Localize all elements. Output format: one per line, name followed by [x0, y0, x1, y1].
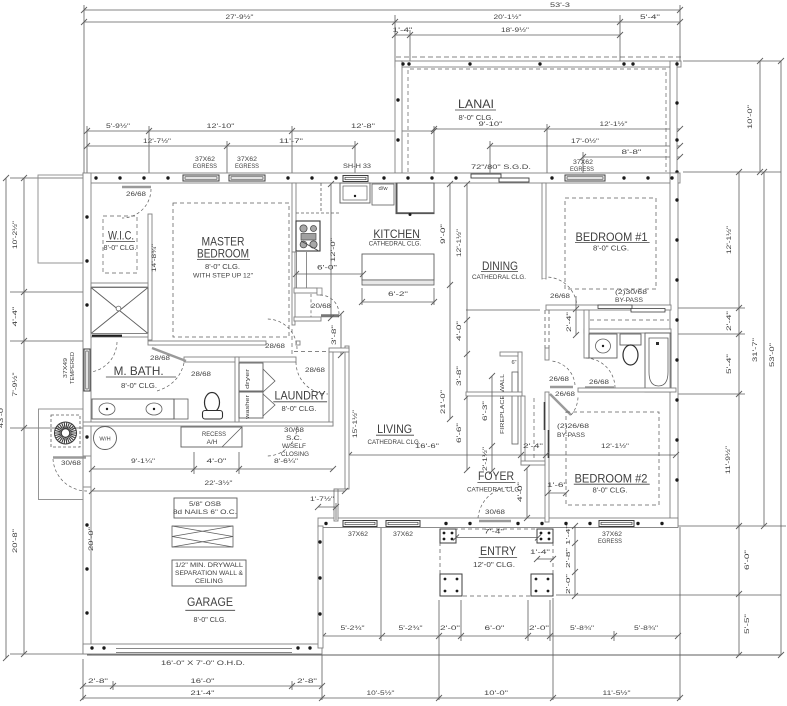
note box drywall separation: [172, 560, 246, 586]
svg-text:S.C.: S.C.: [286, 435, 302, 442]
exterior pad outline bottom-left: [39, 409, 84, 500]
svg-text:CATHEDRAL CLG.: CATHEDRAL CLG.: [369, 241, 422, 248]
svg-text:26/68: 26/68: [549, 376, 570, 383]
svg-text:16'-0" X 7'-0" O.H.D.: 16'-0" X 7'-0" O.H.D.: [161, 660, 245, 667]
svg-text:9'-10": 9'-10": [479, 121, 504, 128]
svg-text:22'-3½": 22'-3½": [205, 479, 234, 487]
lanai posts (dots): [401, 62, 404, 65]
svg-text:FIREPLACE WALL: FIREPLACE WALL: [500, 373, 506, 434]
wall anchor dots left wall: [85, 215, 88, 218]
washer dryer hoses: [263, 369, 275, 416]
svg-text:8'-0" CLG.: 8'-0" CLG.: [593, 246, 629, 253]
svg-text:12'-7½": 12'-7½": [143, 137, 172, 145]
svg-text:10'-0": 10'-0": [747, 104, 754, 129]
svg-text:37X62: 37X62: [237, 156, 258, 163]
kitchen ceiling break dashed: [294, 351, 348, 353]
svg-text:W/SELF: W/SELF: [282, 443, 306, 450]
mbath sinks: [99, 403, 115, 415]
lanai dim row: 9'-10 / 12'-1half: [434, 128, 680, 130]
extension lines right: [683, 60, 781, 62]
svg-text:21'-0": 21'-0": [440, 390, 447, 414]
svg-text:12'-0" CLG.: 12'-0" CLG.: [473, 562, 515, 569]
dim 2'-4 closet: [575, 296, 577, 335]
svg-text:17'-0½": 17'-0½": [571, 137, 600, 145]
AC condenser dashed square with fan: [51, 415, 80, 447]
svg-text:dryer: dryer: [245, 369, 251, 389]
svg-text:8'-8": 8'-8": [622, 149, 643, 156]
svg-text:8'-6¼": 8'-6¼": [274, 458, 299, 465]
svg-text:20'-0": 20'-0": [89, 527, 95, 551]
lanai top wall: [395, 61, 681, 67]
kitchen stove: [296, 221, 320, 251]
dim line top row 3: 1'-4 / 18'-9half: [395, 34, 620, 36]
dim 1'-7half jog: [318, 506, 336, 508]
svg-text:37X62: 37X62: [195, 156, 216, 163]
water heater circle W/H: [94, 427, 117, 450]
svg-text:7'-9½": 7'-9½": [11, 372, 19, 397]
svg-text:11'-9½": 11'-9½": [724, 445, 732, 474]
svg-text:1'-4": 1'-4": [566, 525, 572, 545]
attic access X box: [172, 526, 233, 547]
svg-text:37X62: 37X62: [393, 531, 414, 538]
hall door leaf and arc 26/68 (to hall): [550, 386, 573, 389]
counter run below stove: [296, 252, 298, 288]
svg-text:10'-0": 10'-0": [484, 690, 509, 697]
svg-text:8'-0" CLG.: 8'-0" CLG.: [121, 383, 157, 390]
dim line left: 10'-2half / 4'-4 / 7'-9half / 20'-8: [23, 178, 25, 654]
extension lines bottom: [82, 659, 84, 700]
bedroom1 door arc 26/68: [543, 279, 546, 308]
svg-text:5/8" OSB: 5/8" OSB: [189, 501, 221, 508]
dim 12'-1half bedroom2 / 2'-4 / 16'-6 living row: [349, 454, 676, 456]
bath2 tub: [645, 333, 671, 392]
master south wall: [148, 341, 266, 345]
dim 10'-0 lanai right offset: [759, 61, 761, 172]
dim line top row 2: 27'-9half / 20'-1half / 5'-4: [84, 21, 680, 23]
living west wall: [345, 346, 349, 489]
bath2 door leaf and arc 26/68: [585, 386, 614, 389]
dim 7'-4 porch: [456, 537, 538, 539]
fireplace column north wall: [500, 352, 522, 356]
window SH-H 33 (kitchen sink): [343, 176, 368, 182]
extension lines top: [83, 5, 85, 173]
svg-text:5'-8¾": 5'-8¾": [570, 625, 595, 632]
dryer box: [239, 363, 263, 391]
closet bottom wall / bath north wall: [584, 329, 671, 333]
window 37X49 tempered (left wall): [84, 349, 90, 391]
svg-text:8'-0" CLG.: 8'-0" CLG.: [593, 488, 628, 495]
svg-text:washer: washer: [245, 395, 251, 420]
bedroom2 dashed ceiling rect: [566, 412, 659, 505]
porch post SE: [531, 574, 553, 596]
svg-text:9'-1¼": 9'-1¼": [131, 458, 156, 465]
svg-text:28/68: 28/68: [191, 371, 212, 378]
hall south wall (garage top wall): [83, 422, 333, 426]
svg-text:EGRESS: EGRESS: [598, 538, 622, 545]
dim line overall 53'-3" (top row 1): [84, 9, 680, 11]
svg-text:15'-1½": 15'-1½": [352, 410, 359, 438]
svg-text:2'-8": 2'-8": [566, 548, 572, 568]
svg-text:12'-0": 12'-0": [330, 238, 337, 262]
svg-text:BY-PASS: BY-PASS: [557, 432, 585, 439]
svg-text:CEILING: CEILING: [195, 578, 223, 585]
svg-text:12'-1½": 12'-1½": [601, 442, 630, 450]
svg-text:2'-8": 2'-8": [297, 678, 318, 685]
dim row above main wall: 5'-9half / 12'-10 / 12'-8: [87, 130, 434, 132]
svg-text:20'-1½": 20'-1½": [494, 13, 523, 21]
dim 1'-4 porch: [537, 558, 553, 560]
svg-text:26/68: 26/68: [550, 293, 571, 300]
lanai dim 17'-0half: [490, 145, 680, 147]
svg-text:4'-4": 4'-4": [12, 306, 19, 327]
svg-text:SH-H 33: SH-H 33: [343, 163, 372, 170]
lanai dim 8'-8: [583, 156, 680, 158]
svg-text:28/68: 28/68: [305, 367, 326, 374]
master bedroom dashed ceiling rect: [173, 203, 289, 337]
wall anchor dots right wall: [675, 198, 678, 201]
lanai right wall / house right wall upper: [670, 61, 677, 173]
svg-text:27'-9½": 27'-9½": [226, 13, 255, 21]
dim line right: 12'-1half / 2'-4 / 5'-4 / 11'-9half / 6'-0 / 5'-5: [738, 172, 740, 655]
south wall bedroom2/foyer/living: [318, 518, 678, 528]
svg-text:LIVING: LIVING: [377, 422, 412, 436]
dim 6'-2 island: [362, 301, 434, 303]
long horizontal line y=655: [87, 654, 781, 656]
svg-text:12'-1½": 12'-1½": [456, 229, 463, 257]
wic door 26/68 leaf and arc: [122, 186, 151, 189]
svg-text:5'-5": 5'-5": [744, 613, 751, 634]
pantry south wall: [294, 317, 321, 321]
svg-text:20/68: 20/68: [311, 303, 332, 310]
right exterior wall (main): [670, 173, 678, 526]
bath2 vanity: [589, 334, 617, 358]
svg-text:5'-8¾": 5'-8¾": [634, 625, 659, 632]
svg-text:10'-2½": 10'-2½": [11, 220, 19, 249]
svg-text:EGRESS: EGRESS: [235, 163, 259, 170]
svg-text:37X62: 37X62: [348, 531, 369, 538]
shower curb (dark bar): [92, 335, 122, 337]
closet west wall: [521, 396, 525, 465]
laundry east wall: [329, 352, 333, 426]
svg-text:LANAI: LANAI: [458, 97, 494, 111]
svg-text:37X62: 37X62: [602, 531, 623, 538]
svg-text:18'-9½": 18'-9½": [501, 26, 530, 34]
dim row 2 above wall: 12'-7half / 11'-7: [87, 145, 355, 147]
wic dashed shelf outline: [103, 216, 137, 273]
bath2 south wall / bedroom2 north wall: [578, 388, 676, 392]
svg-text:BEDROOM #1: BEDROOM #1: [576, 230, 648, 244]
svg-text:1'-7½": 1'-7½": [310, 496, 334, 503]
lanai left wall: [395, 61, 402, 173]
window 37X62 living 1: [343, 521, 377, 527]
svg-text:CATHEDRAL CLG.: CATHEDRAL CLG.: [472, 274, 526, 281]
garage door opening: [116, 645, 292, 653]
svg-text:A/H: A/H: [207, 439, 218, 446]
svg-text:(2)30/68: (2)30/68: [615, 289, 648, 296]
dining east wall: [542, 183, 546, 279]
svg-text:11'-5½": 11'-5½": [603, 689, 632, 697]
window 37X62 egress (master): [229, 175, 265, 181]
svg-text:BEDROOM #2: BEDROOM #2: [575, 472, 648, 486]
shower box with X: [91, 288, 148, 334]
left wall exterior door 30/68 opening: [84, 456, 91, 487]
laundry north wall: [184, 357, 296, 362]
svg-text:CATHEDRAL CLG.: CATHEDRAL CLG.: [467, 487, 521, 494]
washer box: [239, 392, 263, 418]
svg-text:14'-8¾": 14'-8¾": [152, 244, 158, 272]
svg-text:2'-0": 2'-0": [529, 625, 550, 632]
dim row garage: 2'-8 / 16'-0 / 2'-8: [83, 685, 322, 687]
svg-text:2'-8": 2'-8": [88, 678, 109, 685]
svg-text:DINING: DINING: [482, 259, 518, 273]
closet dashed rod line: [590, 319, 669, 321]
door arc 30/68 left exterior: [53, 459, 87, 491]
svg-text:CATHEDRAL CLG.: CATHEDRAL CLG.: [368, 439, 421, 446]
svg-text:9'-0": 9'-0": [440, 224, 447, 244]
svg-text:37X62: 37X62: [573, 159, 594, 166]
svg-text:8'-0" CLG.: 8'-0" CLG.: [205, 264, 240, 271]
svg-text:W.I.C.: W.I.C.: [108, 229, 134, 243]
refrigerator: [396, 183, 434, 213]
wall below shower: [91, 334, 148, 338]
svg-text:M. BATH.: M. BATH.: [114, 364, 164, 378]
living west wall lower jog: [334, 489, 338, 521]
svg-text:5'-4": 5'-4": [726, 353, 733, 374]
svg-text:11'-7": 11'-7": [279, 138, 304, 145]
pantry door 20/68 leaf and arc: [321, 314, 339, 317]
kitchen sink: [340, 183, 370, 203]
closet south wall: [521, 461, 545, 465]
dim row porch: 5'-2.75 x2 / 2'-0 / 6'-0 / 2'-0 / 5'-8.75 x2: [323, 635, 678, 637]
svg-text:6'-0": 6'-0": [744, 549, 751, 570]
hall/bath west wall: [584, 310, 589, 358]
front door 30/68 opening: [478, 519, 512, 527]
svg-text:21'-4": 21'-4": [191, 690, 216, 697]
svg-text:12'-8": 12'-8": [351, 123, 376, 130]
garage self-closing door arc: [267, 426, 297, 456]
svg-text:KITCHEN: KITCHEN: [373, 227, 420, 241]
svg-text:EGRESS: EGRESS: [193, 163, 217, 170]
svg-text:EGRESS: EGRESS: [570, 166, 594, 173]
bedroom2 door leaf diagonal and arc: [549, 389, 577, 392]
svg-text:8'-0" CLG.: 8'-0" CLG.: [104, 245, 137, 252]
svg-text:2'-4": 2'-4": [523, 443, 544, 450]
master east wall (kitchen side): [292, 183, 296, 252]
extension lines left: [10, 177, 83, 179]
dim 3-8 pantry opening: [340, 314, 342, 355]
porch post NE: [537, 529, 553, 543]
svg-text:1/2" MIN. DRYWALL: 1/2" MIN. DRYWALL: [175, 562, 244, 569]
svg-text:28/68: 28/68: [150, 355, 171, 362]
svg-text:26/68: 26/68: [555, 391, 576, 398]
svg-text:2'-0": 2'-0": [566, 574, 572, 594]
bedroom1 dashed ceiling rect: [565, 198, 656, 289]
mbath vestibule door leaf diagonal: [152, 348, 186, 361]
door 30/68 leaf (left exterior): [53, 456, 86, 459]
wic/shower top wall: [91, 283, 148, 287]
svg-text:WITH STEP UP 12": WITH STEP UP 12": [193, 273, 254, 280]
svg-text:2'-0": 2'-0": [440, 625, 461, 632]
garage south wall: [83, 644, 322, 654]
entry porch dashed outline: [440, 529, 553, 596]
dim line 31'-7 (right): [763, 172, 765, 526]
svg-text:43'-0: 43'-0: [0, 408, 5, 428]
svg-text:(2)26/68: (2)26/68: [557, 423, 590, 430]
svg-text:6'-6": 6'-6": [456, 423, 463, 443]
dim 4'-0 foyer rotated: [526, 468, 528, 518]
svg-text:4'-0": 4'-0": [207, 458, 228, 465]
dining/living break line: [466, 309, 540, 311]
vestibule arc near left wall: [91, 342, 117, 372]
svg-text:6'-0": 6'-0": [317, 265, 337, 272]
svg-text:8'-0" CLG.: 8'-0" CLG.: [282, 406, 317, 413]
left exterior wall: [83, 173, 91, 654]
svg-text:LAUNDRY: LAUNDRY: [275, 389, 326, 403]
svg-text:8'-0" CLG.: 8'-0" CLG.: [459, 115, 494, 122]
hall east wall jamb: [545, 348, 549, 360]
svg-text:8'-0" CLG.: 8'-0" CLG.: [194, 617, 227, 624]
svg-text:72"/80" S.G.D.: 72"/80" S.G.D.: [471, 164, 531, 171]
svg-text:53'-3: 53'-3: [550, 2, 570, 9]
pantry west wall: [292, 252, 295, 325]
mbath vanity counter: [92, 399, 174, 419]
svg-text:7'-4": 7'-4": [484, 529, 504, 536]
fireplace column west wall: [518, 352, 522, 396]
master door 28/68 arc: [267, 319, 297, 349]
bedroom2 west wall: [545, 392, 549, 522]
garage east wall: [318, 526, 323, 648]
svg-text:W/H: W/H: [99, 437, 110, 443]
svg-text:4'-0": 4'-0": [456, 321, 463, 341]
svg-text:30/68: 30/68: [284, 427, 305, 434]
svg-text:5'-4": 5'-4": [640, 14, 661, 21]
svg-text:53'-0": 53'-0": [769, 342, 776, 367]
svg-text:3'-8": 3'-8": [456, 366, 463, 386]
svg-text:31'-7": 31'-7": [752, 337, 759, 362]
laundry door arc 28/68: [296, 362, 328, 394]
svg-text:GARAGE: GARAGE: [187, 595, 233, 609]
kitchen vertical dim 12ft: [330, 184, 332, 318]
svg-text:ENTRY: ENTRY: [480, 544, 516, 558]
dim line overall 43'-0 (left): [5, 178, 7, 658]
svg-text:16'-0": 16'-0": [191, 678, 216, 685]
svg-text:FOYER: FOYER: [478, 469, 514, 483]
svg-text:1'-6": 1'-6": [547, 483, 567, 489]
lanai inner dashed screen line: [408, 69, 666, 172]
svg-text:BEDROOM: BEDROOM: [197, 247, 249, 261]
svg-text:37X49: 37X49: [63, 358, 69, 378]
svg-text:1'-4": 1'-4": [530, 550, 550, 556]
foyer north wall: [466, 392, 522, 396]
svg-text:TEMPERED: TEMPERED: [70, 352, 76, 384]
svg-text:d/w: d/w: [378, 186, 388, 192]
svg-text:8d NAILS 6" O.C.: 8d NAILS 6" O.C.: [173, 509, 237, 516]
svg-text:20'-8": 20'-8": [12, 528, 19, 553]
dim 6-3 and 2-1half foyer: [491, 376, 493, 471]
fireplace box: [512, 372, 518, 444]
svg-text:3'-8": 3'-8": [332, 325, 338, 345]
sliding glass door 72/80 SGD: [471, 174, 529, 183]
wall anchor dots top wall: [94, 176, 97, 179]
top-left exterior pad outline: [38, 175, 83, 263]
kitchen/dining dim lines 9'-0 21'-0: [449, 184, 451, 419]
svg-text:2'-1½": 2'-1½": [482, 447, 489, 471]
svg-text:5'-2¾": 5'-2¾": [341, 625, 366, 632]
svg-text:CLOSING: CLOSING: [281, 451, 309, 458]
svg-text:6": 6": [511, 360, 516, 366]
svg-text:5'-2¾": 5'-2¾": [399, 625, 424, 632]
porch post SW: [440, 574, 462, 596]
window 37X62 egress (wic/master): [183, 175, 219, 181]
wall anchor dots south walls: [324, 522, 327, 525]
svg-text:2'-4": 2'-4": [567, 312, 573, 332]
svg-text:12'-1½": 12'-1½": [600, 120, 629, 128]
svg-text:6'-0": 6'-0": [485, 625, 506, 632]
bedroom1 closet wall with bypass doors: [546, 305, 671, 310]
svg-text:26/68: 26/68: [589, 379, 610, 386]
svg-text:26/68: 26/68: [126, 191, 147, 198]
kitchen island: [362, 254, 434, 280]
closet dashed lines: [533, 398, 535, 462]
window 37X62 living 2: [386, 521, 420, 527]
svg-text:12'-1½": 12'-1½": [725, 225, 733, 254]
porch post NW: [440, 529, 456, 543]
dim 22'-3half: [92, 490, 345, 492]
bedroom2 closet bypass doors: [546, 402, 549, 458]
note box 5/8 OSB: [174, 498, 237, 518]
svg-text:RECESS: RECESS: [202, 431, 226, 438]
svg-text:28/68: 28/68: [265, 343, 286, 350]
pantry top wall: [294, 288, 317, 293]
svg-text:30/68: 30/68: [485, 509, 506, 516]
porch vertical dim 1-4 2-8 2-0: [574, 526, 576, 596]
svg-text:12'-10": 12'-10": [207, 123, 236, 130]
svg-text:5'-9½": 5'-9½": [106, 122, 131, 130]
dim row bottom: 21'-4 / 10'-5half / 10'-0 / 11'-5half: [83, 697, 680, 699]
svg-text:10'-5½": 10'-5½": [367, 689, 396, 697]
recess A/H box: [181, 427, 242, 447]
living north wall piece: [329, 348, 349, 352]
svg-text:6'-3": 6'-3": [483, 401, 489, 421]
wic east wall: [148, 214, 152, 340]
svg-text:30/68: 30/68: [61, 460, 82, 467]
svg-text:2'-4": 2'-4": [726, 310, 733, 331]
dashed wall below dining east: [544, 310, 546, 348]
svg-text:6'-2": 6'-2": [388, 291, 409, 298]
dim line 12'-1half 4'-0 3'-8 6'-6 (dining): [466, 184, 468, 470]
dishwasher d/w: [372, 184, 394, 205]
pantry shelf dashed: [310, 294, 312, 317]
dim line 53'-0 (far right): [780, 61, 782, 655]
kitchen dim 6ft to island: [296, 273, 363, 275]
svg-text:SEPARATION WALL &: SEPARATION WALL &: [175, 570, 244, 577]
mbath toilet: [205, 393, 220, 413]
dim 1'-6 closet door: [548, 492, 566, 494]
svg-text:BY-PASS: BY-PASS: [615, 297, 643, 304]
window 37X62 egress (bedroom1): [565, 175, 605, 181]
window 37X62 egress bedroom2: [599, 521, 634, 527]
bath2 toilet: [620, 334, 641, 345]
lanai dashed roof line: [396, 56, 681, 58]
kitchen counter dashed edge: [296, 212, 340, 214]
dim row 9'-1quarter 4'-0 8'-6quarter: [92, 468, 333, 470]
main top exterior wall: [83, 173, 680, 183]
washer dryer niche walls: [235, 357, 239, 422]
